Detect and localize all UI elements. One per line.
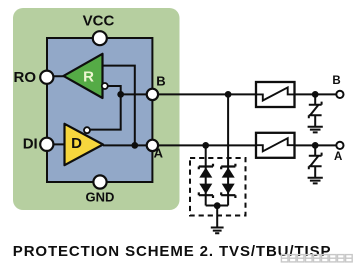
svg-text:B: B xyxy=(156,74,165,89)
svg-text:B: B xyxy=(332,75,340,87)
svg-text:A: A xyxy=(154,145,164,160)
svg-text:A: A xyxy=(334,151,342,163)
svg-text:D: D xyxy=(71,135,82,152)
svg-text:DI: DI xyxy=(23,136,38,153)
svg-text:R: R xyxy=(83,69,94,86)
svg-text:GND: GND xyxy=(86,190,115,205)
svg-text:PROTECTION SCHEME 2. TVS/TBU/T: PROTECTION SCHEME 2. TVS/TBU/TISP xyxy=(13,243,332,260)
svg-text:RO: RO xyxy=(14,69,37,86)
svg-text:VCC: VCC xyxy=(83,13,115,30)
